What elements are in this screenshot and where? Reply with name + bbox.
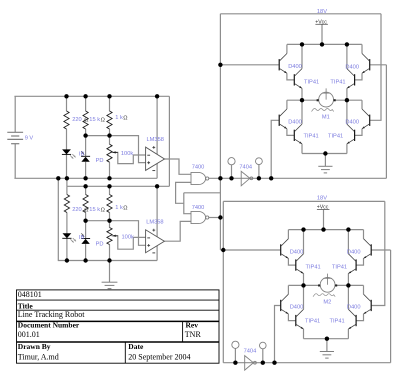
svg-text:IB: IB [79, 235, 85, 241]
svg-text:+Vcc: +Vcc [317, 205, 329, 211]
svg-text:7400: 7400 [192, 164, 205, 170]
svg-text:TIP41: TIP41 [330, 319, 345, 325]
svg-text:Rev: Rev [186, 321, 199, 330]
svg-text:Drawn By: Drawn By [18, 342, 51, 351]
svg-text:PD: PD [96, 158, 104, 164]
svg-text:Line Tracking Robot: Line Tracking Robot [18, 310, 85, 319]
svg-text:Ω: Ω [101, 118, 105, 124]
svg-text:D400: D400 [345, 119, 359, 125]
svg-text:TNR: TNR [185, 330, 202, 339]
svg-text:9 V: 9 V [25, 136, 34, 142]
svg-text:Ω: Ω [101, 208, 105, 214]
svg-text:048101: 048101 [18, 290, 42, 299]
svg-text:IB: IB [79, 152, 85, 158]
svg-text:001.01: 001.01 [18, 330, 40, 339]
svg-text:TIP41: TIP41 [306, 265, 321, 271]
svg-text:Ω: Ω [123, 116, 127, 122]
svg-text:D400: D400 [288, 119, 302, 125]
svg-text:Ω: Ω [123, 206, 127, 212]
svg-text:LM358: LM358 [146, 219, 163, 225]
svg-text:M1: M1 [322, 115, 330, 121]
svg-text:TIP41: TIP41 [328, 133, 343, 139]
svg-text:D400: D400 [288, 64, 302, 70]
svg-text:7404: 7404 [239, 164, 252, 170]
svg-text:Date: Date [128, 342, 144, 351]
svg-text:15 k: 15 k [89, 117, 100, 123]
svg-text:TIP41: TIP41 [332, 265, 347, 271]
svg-text:D400: D400 [290, 305, 304, 311]
svg-text:220: 220 [72, 117, 82, 123]
svg-text:LM358: LM358 [147, 137, 164, 143]
svg-text:7400: 7400 [192, 205, 205, 211]
svg-text:1 k: 1 k [115, 205, 123, 211]
svg-text:100k: 100k [122, 235, 134, 241]
svg-text:Ω: Ω [84, 118, 88, 124]
svg-text:18V: 18V [317, 195, 327, 201]
svg-text:220: 220 [72, 207, 82, 213]
svg-text:TIP41: TIP41 [305, 319, 320, 325]
svg-text:D400: D400 [347, 305, 361, 311]
svg-text:D400: D400 [345, 64, 359, 70]
svg-text:Ω: Ω [84, 208, 88, 214]
svg-text:M2: M2 [323, 300, 331, 306]
svg-text:100k: 100k [121, 151, 133, 157]
svg-text:20 September 2004: 20 September 2004 [128, 352, 190, 361]
svg-text:D400: D400 [290, 249, 304, 255]
svg-text:TIP41: TIP41 [304, 79, 319, 85]
svg-text:TIP41: TIP41 [330, 79, 345, 85]
svg-text:1 k: 1 k [115, 115, 123, 121]
svg-text:7404: 7404 [244, 348, 257, 354]
svg-text:Timur, A.md: Timur, A.md [18, 352, 59, 361]
svg-text:18V: 18V [317, 9, 327, 15]
svg-text:+Vcc: +Vcc [315, 19, 327, 25]
svg-text:D400: D400 [347, 250, 361, 256]
svg-text:15 k: 15 k [89, 207, 100, 213]
svg-text:PD: PD [96, 241, 104, 247]
svg-text:Document Number: Document Number [18, 321, 80, 330]
svg-text:TIP41: TIP41 [304, 133, 319, 139]
